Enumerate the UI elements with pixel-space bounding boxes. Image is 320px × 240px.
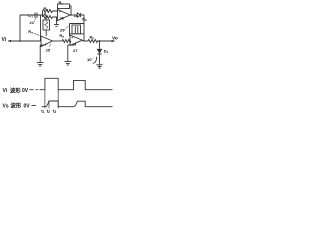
op-amp U26 triangle bbox=[58, 10, 71, 21]
svg-text:Ra: Ra bbox=[44, 6, 49, 12]
ground G2 stub bbox=[68, 43, 76, 62]
node Vi label bbox=[2, 37, 7, 43]
label 10 bbox=[87, 57, 93, 62]
diode D2 bbox=[77, 13, 80, 17]
wire top rail y=15 bbox=[20, 14, 41, 16]
op-amp U25 triangle bbox=[41, 36, 53, 47]
resistor Ra zigzag bbox=[43, 10, 58, 13]
wire down to D1 bbox=[99, 41, 101, 49]
wire rail into op27 bbox=[69, 40, 70, 42]
resistor Rs feedback box bbox=[58, 4, 70, 9]
resistor Rb zigzag bbox=[43, 16, 58, 19]
ground G4 under transistor bbox=[96, 65, 102, 69]
ground G3 under 26 inverting input bbox=[54, 18, 59, 27]
svg-text:Vo: Vo bbox=[112, 35, 118, 41]
svg-text:Ro: Ro bbox=[90, 34, 95, 40]
label D bbox=[74, 13, 77, 18]
wire diode to right vertical bbox=[81, 15, 84, 41]
op-amp 26 plus bbox=[59, 11, 61, 13]
label Ra2 bbox=[28, 29, 33, 35]
label t1 t2 t3 bbox=[41, 108, 56, 114]
svg-text:Ra: Ra bbox=[28, 29, 33, 35]
svg-text:10’: 10’ bbox=[87, 57, 93, 62]
svg-text:29’: 29’ bbox=[60, 27, 66, 32]
wire main bottom rail y=41 left bbox=[8, 40, 41, 42]
label 25 bbox=[46, 47, 51, 52]
resistor box 24 vertical bbox=[43, 20, 50, 30]
svg-text:Vs: Vs bbox=[3, 103, 9, 109]
timing line t1 bbox=[44, 90, 46, 109]
label C1 bbox=[28, 13, 33, 19]
svg-text:0V: 0V bbox=[22, 88, 29, 94]
svg-text:波形: 波形 bbox=[11, 102, 22, 110]
wire feedback 25 bbox=[40, 43, 46, 62]
timing line t3 lower bbox=[57, 101, 59, 108]
wire op27 output bbox=[83, 40, 89, 42]
label Ra2 leader bbox=[34, 33, 40, 36]
svg-text:0V: 0V bbox=[24, 103, 31, 109]
waveform Vs zero level dash bbox=[32, 104, 37, 106]
junction output 26 bbox=[70, 14, 72, 16]
wire transistor emitter to ground bbox=[99, 66, 101, 68]
waveform Vs 0V bbox=[24, 103, 31, 109]
waveform Vi kanji bbox=[10, 86, 21, 94]
svg-text:26: 26 bbox=[60, 16, 65, 21]
junction x=20 bbox=[19, 40, 21, 42]
wire Vi input arrow bbox=[8, 40, 11, 43]
svg-text:27: 27 bbox=[73, 48, 78, 53]
svg-text:D: D bbox=[74, 13, 77, 18]
svg-text:Rb: Rb bbox=[82, 16, 87, 22]
wire rail between op25 and resistor29 bbox=[53, 40, 63, 42]
svg-text:波形: 波形 bbox=[10, 86, 21, 94]
label D1 bbox=[104, 49, 109, 55]
wire Rs left stub bbox=[57, 9, 59, 12]
label 29 leader bbox=[66, 26, 69, 29]
ground G2 bbox=[64, 62, 71, 65]
label 26 bbox=[60, 16, 65, 21]
waveform Vs trace bbox=[42, 101, 113, 107]
ground G1 under op25 bbox=[37, 63, 44, 66]
waveform Vi baseline dash bbox=[30, 89, 39, 91]
waveform Vi label bbox=[3, 88, 8, 94]
node Vo label bbox=[112, 35, 118, 41]
svg-text:Vi: Vi bbox=[3, 88, 8, 94]
junction bar to Ra/Rb split bbox=[41, 11, 43, 17]
wire vertical x=20 bbox=[19, 15, 21, 41]
label 25 leader bbox=[49, 44, 51, 47]
capacitor C2 plates bbox=[75, 26, 78, 33]
label Ra bbox=[44, 6, 49, 12]
transistor Q10 bbox=[93, 57, 97, 64]
waveform Vi baseline and pulses bbox=[40, 78, 113, 89]
label Rs bbox=[59, 0, 64, 5]
label Rb2 bbox=[82, 16, 87, 22]
waveform Vs label bbox=[3, 103, 9, 109]
wire D1 to transistor bbox=[99, 54, 101, 65]
wire op26 output bbox=[70, 14, 78, 16]
svg-text:21’: 21’ bbox=[30, 20, 36, 25]
capacitor C2 feedback loop bbox=[70, 24, 85, 37]
junction x=100 bbox=[99, 40, 101, 42]
timing line t3 bbox=[57, 90, 59, 101]
label 21 bbox=[30, 20, 36, 25]
svg-text:C1: C1 bbox=[28, 13, 33, 19]
svg-text:Ra: Ra bbox=[60, 33, 65, 39]
capacitor C2 box bbox=[72, 25, 81, 34]
label Ra3 bbox=[60, 33, 65, 39]
svg-text:Rb: Rb bbox=[44, 12, 49, 18]
svg-text:Vi: Vi bbox=[2, 37, 7, 43]
resistor Ro zigzag bbox=[88, 40, 115, 43]
capacitor C1 plates bbox=[35, 13, 37, 19]
svg-text:Rs: Rs bbox=[59, 0, 64, 5]
wire Rs right stub to output bbox=[70, 6, 72, 15]
label 27 bbox=[73, 48, 78, 53]
diode D1 bbox=[97, 49, 101, 54]
label 21 leader bbox=[35, 18, 37, 21]
timing line t2 bbox=[48, 101, 50, 108]
resistor 29 zigzag on rail bbox=[62, 40, 71, 43]
op-amp 27 plus bbox=[71, 36, 73, 38]
waveform Vs kanji bbox=[11, 102, 22, 110]
label 29 bbox=[60, 27, 66, 32]
label Ro bbox=[90, 34, 95, 40]
svg-text:t2: t2 bbox=[47, 108, 50, 114]
wire vertical x=40.5 down to bottom rail bbox=[40, 15, 42, 41]
svg-text:25: 25 bbox=[46, 47, 51, 52]
waveform Vi 0V bbox=[22, 88, 29, 94]
svg-text:t3: t3 bbox=[53, 108, 56, 114]
op-amp U27 triangle bbox=[70, 35, 83, 45]
label Rb bbox=[44, 12, 49, 18]
svg-text:D1: D1 bbox=[104, 49, 109, 55]
svg-text:t1: t1 bbox=[41, 108, 44, 114]
